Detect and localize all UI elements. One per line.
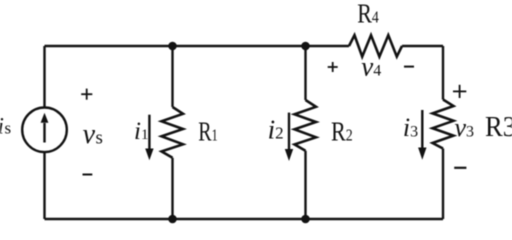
wire right upper (corner down to R3)	[442, 46, 444, 100]
label plus vs	[81, 89, 92, 100]
svg-text:R3: R3	[485, 111, 512, 142]
wire R2 branch upper	[304, 46, 306, 100]
wire top rail right (R4 to corner)	[402, 45, 443, 47]
wire left upper (corner to source)	[43, 46, 45, 108]
current arrow i2	[285, 113, 293, 161]
wire right lower (R3 to bottom corner)	[442, 149, 444, 220]
wire R1 branch lower	[171, 158, 173, 219]
current source arrow	[41, 113, 49, 143]
wire R1 branch upper	[171, 46, 173, 107]
label R1	[198, 118, 218, 148]
wire top rail left (corner to node B)	[45, 45, 306, 47]
label R3	[485, 111, 512, 142]
label plus v4	[328, 62, 338, 72]
label minus vs	[83, 174, 93, 176]
node bottom A	[168, 215, 177, 224]
current arrow i3	[418, 110, 426, 160]
current arrow i1	[145, 115, 153, 161]
wire top rail mid (node B to R4)	[306, 45, 350, 47]
resistor R2 zigzag	[295, 100, 317, 151]
resistor R1 zigzag	[162, 107, 184, 158]
label minus v3	[454, 167, 466, 169]
label plus v3	[453, 85, 466, 98]
node top A	[168, 42, 177, 51]
label R4	[357, 0, 379, 29]
resistor R4 zigzag	[349, 35, 402, 56]
label minus v4	[404, 66, 414, 68]
node bottom B	[301, 215, 310, 224]
label R2	[331, 118, 353, 148]
resistor R3 zigzag	[433, 100, 454, 149]
current source circle	[22, 108, 67, 153]
wire bottom rail	[45, 218, 444, 220]
node top B	[301, 42, 310, 51]
wire left lower (source to bottom corner)	[43, 152, 45, 219]
wire R2 branch lower	[304, 151, 306, 219]
